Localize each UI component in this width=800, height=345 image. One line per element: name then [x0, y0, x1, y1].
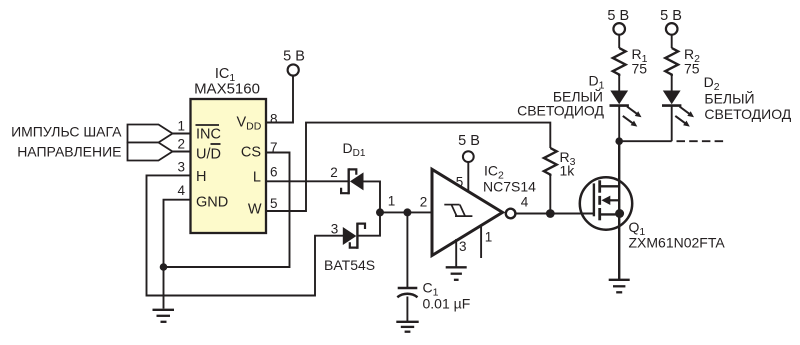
terminal 5V for IC1	[288, 64, 299, 75]
svg-text:75: 75	[632, 61, 648, 77]
svg-text:1: 1	[485, 230, 493, 245]
drain connection	[600, 185, 619, 187]
junction GND/CS	[160, 263, 168, 271]
ground (IC2 pin 3)	[446, 267, 467, 280]
svg-text:0.01 µF: 0.01 µF	[423, 295, 471, 311]
capacitor C1	[406, 212, 408, 287]
schmitt trigger glyph	[444, 205, 472, 217]
wire R2 to D2	[671, 76, 673, 91]
wire IC2 output to Q1 gate	[516, 213, 594, 215]
LED D1	[610, 91, 628, 105]
IC1 MAX5160 body	[191, 99, 267, 233]
svg-text:3: 3	[459, 239, 467, 254]
wire D1 to rail	[618, 106, 620, 142]
terminal 5V for R2	[666, 23, 678, 35]
svg-text:8: 8	[270, 112, 278, 127]
svg-text:СВЕТОДИОД: СВЕТОДИОД	[704, 106, 791, 122]
svg-text:СВЕТОДИОД: СВЕТОДИОД	[517, 103, 604, 119]
wire upper diode anode to node 1	[364, 181, 381, 212]
svg-text:5: 5	[270, 196, 278, 211]
svg-text:НАПРАВЛЕНИЕ: НАПРАВЛЕНИЕ	[17, 143, 121, 159]
IC2 pin 1 stub	[480, 226, 482, 259]
channel segments	[598, 180, 601, 192]
svg-text:BAT54S: BAT54S	[324, 257, 375, 273]
svg-text:4: 4	[177, 183, 185, 198]
junction node C1	[403, 208, 411, 216]
IC2 pin 5 wire	[467, 162, 469, 192]
IC2 pin 3 wire	[455, 239, 457, 267]
wire pin 6 L to upper diode cathode	[266, 180, 348, 182]
body-source junction	[615, 209, 624, 218]
svg-text:5 В: 5 В	[458, 133, 480, 149]
svg-text:NC7S14: NC7S14	[483, 179, 536, 195]
svg-text:L: L	[253, 170, 261, 186]
wire pin 3 H to lower diode anode	[147, 175, 344, 295]
resistor R2	[665, 48, 678, 76]
svg-text:CS: CS	[241, 145, 261, 161]
svg-text:ZXM61N02FTA: ZXM61N02FTA	[629, 234, 726, 250]
svg-text:3: 3	[331, 221, 339, 236]
svg-text:INC: INC	[196, 127, 221, 143]
resistor R3	[544, 148, 557, 176]
wire pin 7 CS to ground junction	[164, 153, 290, 268]
wire pin 5 W up and right to R3	[266, 123, 550, 211]
LED cathode rail	[619, 140, 672, 142]
svg-text:H: H	[196, 169, 206, 185]
svg-text:1: 1	[388, 194, 396, 209]
input flag 2 (direction)	[128, 143, 173, 161]
wire R1 to D1	[618, 76, 620, 91]
svg-text:75: 75	[684, 61, 700, 77]
svg-text:MAX5160: MAX5160	[194, 81, 260, 98]
svg-text:2: 2	[177, 137, 185, 152]
transistor Q1 MOSFET	[580, 177, 632, 229]
wire flag1 to pin 1	[173, 133, 191, 135]
terminal 5V for IC2	[463, 151, 474, 162]
svg-text:GND: GND	[196, 195, 228, 211]
wire flag2 to pin 2	[173, 151, 191, 153]
op-amp/inverter IC2 NC7S14 triangle	[432, 169, 503, 255]
ground (IC1)	[153, 310, 175, 322]
junction node 1	[376, 208, 384, 216]
drain-source vertical	[618, 141, 620, 279]
svg-text:ИМПУЛЬС ШАГА: ИМПУЛЬС ШАГА	[11, 123, 122, 139]
ground (Q1 source)	[609, 280, 630, 293]
svg-text:2: 2	[330, 165, 338, 180]
wire D2 to rail	[671, 106, 673, 142]
svg-text:U/D: U/D	[196, 146, 221, 162]
input flag 1 (step pulse)	[128, 125, 173, 143]
gate bar	[593, 183, 595, 216]
source connection	[600, 213, 619, 215]
svg-text:5 В: 5 В	[607, 8, 629, 24]
wire pin 4 GND down to ground	[164, 200, 191, 309]
wire terminal to R1	[618, 34, 620, 48]
wire R3 bottom to output node	[549, 176, 551, 214]
dashed extension wire	[677, 140, 725, 142]
wire terminal to R2	[671, 34, 673, 48]
svg-text:5 В: 5 В	[283, 49, 305, 65]
svg-text:5: 5	[456, 175, 464, 190]
wire pin 8 VDD to 5V terminal	[266, 75, 293, 122]
svg-text:6: 6	[270, 164, 278, 179]
wire lower diode cathode to node 1	[357, 212, 380, 235]
svg-text:1k: 1k	[560, 163, 576, 179]
svg-text:3: 3	[177, 160, 185, 175]
svg-text:W: W	[248, 202, 262, 218]
LED D2	[663, 91, 681, 105]
svg-text:4: 4	[521, 195, 529, 210]
svg-text:5 В: 5 В	[660, 8, 682, 24]
svg-text:2: 2	[420, 194, 428, 209]
IC2 output bubble	[506, 209, 516, 219]
terminal 5V for R1	[613, 23, 625, 35]
ground (C1)	[396, 322, 418, 332]
junction D1/drain	[615, 137, 623, 145]
resistor R1	[613, 48, 626, 76]
body arrow	[610, 199, 620, 201]
node 1 wire to IC2 input	[380, 211, 433, 213]
junction R3/output	[546, 209, 555, 218]
svg-text:БЕЛЫЙ: БЕЛЫЙ	[704, 89, 754, 106]
svg-text:1: 1	[177, 119, 185, 134]
